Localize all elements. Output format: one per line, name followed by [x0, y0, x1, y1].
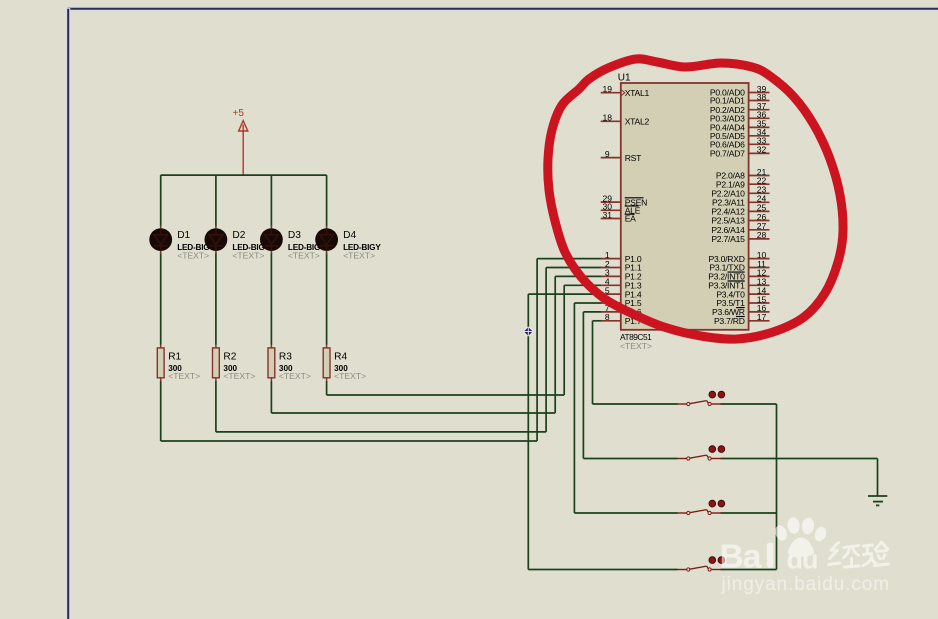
pin 27 P2.6/A14: [711, 221, 769, 235]
node marker (origin diamond) on P1.4 wire: [523, 327, 533, 337]
pin 19 XTAL1: [601, 84, 650, 98]
svg-text:du: du: [787, 545, 818, 575]
resistor R2: [213, 345, 220, 382]
wire elbow up to pin 1 (P1.0): [537, 259, 601, 441]
LED D4: [315, 225, 338, 254]
wire switch2 output to ground: [721, 458, 878, 460]
pin 26 P2.5/A13: [711, 212, 769, 226]
pin 29 PSEN: [601, 193, 647, 207]
wire R2 down-right to pin elbow: [216, 381, 546, 432]
pin 14 P3.4/T0: [716, 285, 769, 299]
wire D3 to R3: [270, 253, 272, 345]
label LED D3: [288, 230, 326, 261]
pin 28 P2.7/A15: [711, 230, 769, 244]
svg-text:<TEXT>: <TEXT>: [279, 371, 311, 381]
pin 13 P3.3/INT1: [708, 277, 769, 291]
wire R1 down-right to pin elbow: [161, 381, 537, 441]
svg-text:<TEXT>: <TEXT>: [288, 251, 320, 261]
label resistor R1 value 300: [168, 352, 200, 381]
svg-text:EA: EA: [625, 214, 636, 224]
wire R4 down-right to pin elbow: [327, 381, 565, 395]
svg-text:32: 32: [757, 145, 767, 155]
watermark jingyan characters: [829, 542, 889, 567]
pin 18 XTAL2: [601, 113, 650, 127]
svg-text:D1: D1: [177, 230, 190, 241]
pin 35 P0.4/AD4: [710, 119, 770, 133]
pin 15 P3.5/T1: [716, 294, 769, 308]
pin 3 P1.2: [601, 268, 642, 282]
svg-text:<TEXT>: <TEXT>: [620, 341, 652, 351]
svg-text:P0.7/AD7: P0.7/AD7: [710, 149, 745, 159]
svg-text:jingyan.baidu.com: jingyan.baidu.com: [721, 574, 890, 595]
svg-text:+5: +5: [233, 108, 245, 119]
wire rail to D2: [215, 175, 217, 227]
power +5: [233, 108, 248, 175]
LED D1: [149, 225, 172, 254]
svg-text:U1: U1: [618, 72, 631, 83]
switch SW1 (push button): [677, 391, 725, 405]
svg-text:Ba: Ba: [720, 539, 762, 576]
svg-text:P3.7/RD: P3.7/RD: [714, 316, 745, 326]
svg-text:<TEXT>: <TEXT>: [223, 371, 255, 381]
resistor R1: [157, 345, 164, 382]
wire pin 7 (P1.6) to switch row 2: [583, 312, 677, 459]
resistor R3: [268, 345, 275, 382]
pin 38 P0.1/AD1: [710, 92, 770, 106]
wire pin 8 (P1.7) to switch row 1: [593, 321, 678, 404]
pin 4 P1.3: [601, 277, 642, 291]
svg-text:<TEXT>: <TEXT>: [343, 251, 375, 261]
svg-text:R1: R1: [168, 352, 181, 363]
pin 6 P1.5: [601, 294, 642, 308]
svg-text:17: 17: [757, 312, 767, 322]
wire elbow up to pin 4 (P1.3): [564, 285, 601, 395]
pin 36 P0.3/AD3: [710, 110, 770, 124]
pin 30 ALE: [601, 202, 641, 216]
svg-text:D2: D2: [232, 230, 245, 241]
pin 2 P1.1: [601, 259, 642, 273]
svg-text:<TEXT>: <TEXT>: [334, 371, 366, 381]
svg-text:<TEXT>: <TEXT>: [168, 371, 200, 381]
pin 34 P0.5/AD5: [710, 127, 770, 141]
label resistor R2 value 300: [223, 352, 255, 381]
label LED D1: [177, 230, 215, 261]
svg-text:31: 31: [603, 210, 613, 220]
pin 7 P1.6: [601, 303, 642, 317]
pin 10 P3.0/RXD: [708, 250, 769, 264]
pin 1 P1.0: [601, 250, 642, 264]
wire switch4 output to common vertical: [721, 569, 777, 571]
label resistor R3 value 300: [279, 352, 311, 381]
wire +5 rail: [161, 174, 327, 176]
watermark baidu jingyan: [720, 517, 829, 576]
LED D2: [205, 225, 228, 254]
op-amp U1 AT89C51 body: [621, 83, 749, 330]
wire common vertical bus: [776, 404, 778, 570]
switch SW2 (push button): [677, 446, 725, 460]
resistor R4: [323, 345, 330, 382]
pin 24 P2.3/A11: [712, 194, 770, 208]
svg-text:XTAL1: XTAL1: [625, 88, 650, 98]
wire D2 to R2: [215, 253, 217, 345]
svg-text:D3: D3: [288, 230, 301, 241]
pin 37 P0.2/AD2: [710, 101, 770, 115]
pin 33 P0.6/AD6: [710, 136, 770, 150]
pin 12 P3.2/INT0: [708, 268, 769, 282]
pin 32 P0.7/AD7: [710, 145, 770, 159]
pin 11 P3.1/TXD: [709, 259, 769, 273]
svg-text:R4: R4: [334, 352, 347, 363]
LED D3: [260, 225, 283, 254]
svg-text:XTAL2: XTAL2: [625, 117, 650, 127]
svg-text:R2: R2: [223, 352, 236, 363]
pin 9 RST: [601, 149, 642, 163]
pin 23 P2.2/A10: [711, 185, 769, 199]
annotation red circle around U1: [548, 59, 843, 339]
ground: [868, 496, 887, 505]
wire D1 to R1: [160, 253, 162, 345]
wire to ground: [877, 459, 879, 497]
svg-text:D4: D4: [343, 230, 356, 241]
svg-text:R3: R3: [279, 352, 292, 363]
label LED D4: [343, 230, 381, 261]
wire elbow up to pin 3 (P1.2): [555, 276, 601, 413]
wire elbow up to pin 2 (P1.1): [546, 268, 601, 432]
svg-text:28: 28: [757, 230, 767, 240]
wire pin 5 (P1.4) to switch row 4: [528, 294, 677, 569]
svg-text:18: 18: [603, 113, 613, 123]
svg-text:19: 19: [603, 84, 613, 94]
pin 25 P2.4/A12: [711, 203, 769, 217]
wire D4 to R4: [326, 253, 328, 345]
svg-text:<TEXT>: <TEXT>: [232, 251, 264, 261]
pin 22 P2.1/A9: [716, 176, 770, 190]
pin 8 P1.7: [601, 312, 642, 326]
wire R3 down-right to pin elbow: [271, 381, 555, 413]
svg-text:9: 9: [605, 149, 610, 159]
pin 31 EA: [601, 210, 636, 224]
svg-text:P2.7/A15: P2.7/A15: [711, 234, 745, 244]
wire rail to D4: [326, 175, 328, 227]
wire rail to D3: [270, 175, 272, 227]
pin 5 P1.4: [601, 285, 642, 299]
svg-text:RST: RST: [625, 153, 642, 163]
wire switch1 output to common vertical: [721, 403, 777, 405]
wire switch3 output to common vertical: [721, 512, 777, 514]
pin 16 P3.6/WR: [712, 303, 769, 317]
svg-text:8: 8: [605, 312, 610, 322]
pin 39 P0.0/AD0: [710, 84, 770, 98]
svg-text:<TEXT>: <TEXT>: [177, 251, 209, 261]
label LED D2: [232, 230, 270, 261]
switch SW3 (push button): [677, 500, 725, 514]
switch SW4 (push button): [677, 557, 725, 571]
wire pin 6 (P1.5) to switch row 3: [574, 303, 677, 513]
wire rail to D1: [160, 175, 162, 227]
pin 21 P2.0/A8: [716, 167, 770, 181]
label resistor R4 value 300: [334, 352, 366, 381]
pin 17 P3.7/RD: [714, 312, 770, 326]
